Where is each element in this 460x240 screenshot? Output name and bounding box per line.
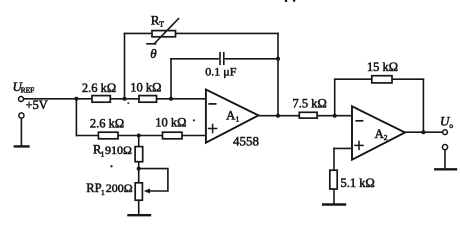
svg-text:0.1 μF: 0.1 μF xyxy=(205,64,236,78)
terminal: U_REF input xyxy=(19,97,24,102)
resistor 15 kOhm xyxy=(372,76,392,83)
thermistor RT diagonal stroke xyxy=(154,19,178,44)
stray speck near R1 label xyxy=(110,165,112,167)
capacitor 0.1 uF xyxy=(219,52,225,65)
svg-text:1: 1 xyxy=(101,188,105,197)
wire: R1/RP1 branch vertical xyxy=(138,136,140,216)
node: A2 output junction xyxy=(421,130,425,134)
wire: capacitor branch horizontal xyxy=(171,58,278,60)
node: R1/RP1 junction xyxy=(137,167,141,171)
wire row1: U_REF to A1 inverting input xyxy=(24,98,206,100)
op-amp A1 minus pin mark xyxy=(209,103,215,105)
potentiometer RP1 wiper arrowhead xyxy=(144,189,150,194)
svg-text:2.6 kΩ: 2.6 kΩ xyxy=(82,81,116,95)
wire: 5.1k branch vertical xyxy=(333,148,335,204)
svg-text:1: 1 xyxy=(101,150,105,159)
svg-text:2.6 kΩ: 2.6 kΩ xyxy=(90,117,124,131)
ground: under RP1 xyxy=(129,214,151,216)
terminal: U_o output xyxy=(443,130,448,135)
wire row2 horizontal xyxy=(76,135,206,137)
op-amp A1 xyxy=(206,90,259,143)
wire: A1 output to A2 input xyxy=(259,115,353,117)
label A2 xyxy=(375,126,388,142)
label R_T xyxy=(151,13,164,29)
wire: A2 output xyxy=(405,131,443,133)
resistor R1 910 Ohm (vertical) xyxy=(135,147,143,162)
node: A2 feedback junction xyxy=(333,114,337,118)
svg-text:15 kΩ: 15 kΩ xyxy=(367,60,398,74)
op-amp A2 plus pin mark xyxy=(355,141,363,149)
wire: riser to capacitor branch xyxy=(170,59,172,99)
svg-text:REF: REF xyxy=(21,85,35,94)
svg-text:1: 1 xyxy=(236,115,240,124)
svg-text:+5V: +5V xyxy=(26,98,48,112)
wire: thermistor branch top xyxy=(125,32,279,34)
wire: A2 plus input xyxy=(334,147,352,149)
svg-text:T: T xyxy=(159,20,164,29)
wire: right feedback vertical to A1 output xyxy=(277,33,279,115)
stray speck right of A1 input xyxy=(193,119,195,121)
wire: A2 feedback right vertical xyxy=(422,79,424,132)
stray mark: cropped glyph top edge right xyxy=(293,0,295,2)
resistor 10 kOhm (row 1) xyxy=(139,96,157,103)
label RP1 200 Ohm xyxy=(86,181,132,197)
wire: A2 feedback left riser xyxy=(334,79,336,116)
svg-text:2: 2 xyxy=(384,133,388,142)
resistor 2.6 kOhm (row 2) xyxy=(98,132,118,139)
svg-text:5.1 kΩ: 5.1 kΩ xyxy=(341,176,375,190)
resistor 2.6 kOhm (row 1) xyxy=(92,96,110,103)
node: R1 branch junction xyxy=(137,134,141,138)
node: capacitor tap junction xyxy=(169,97,173,101)
wire: riser to thermistor branch xyxy=(124,33,126,98)
op-amp A2 xyxy=(352,106,405,159)
wire: RP1 wiper loop xyxy=(139,169,168,191)
svg-text:10 kΩ: 10 kΩ xyxy=(155,115,186,129)
resistor 10 kOhm (row 2) xyxy=(163,132,183,139)
op-amp A1 plus pin mark xyxy=(209,125,217,133)
svg-text:200Ω: 200Ω xyxy=(106,181,133,195)
terminal: below U_o xyxy=(442,145,447,150)
ground: under output terminal xyxy=(435,168,456,170)
stray speck below junction xyxy=(127,102,129,104)
node: capacitor / thermistor feedback junction xyxy=(276,57,280,61)
svg-text:7.5 kΩ: 7.5 kΩ xyxy=(293,97,327,111)
label A1 xyxy=(226,108,240,124)
thermistor RT foot xyxy=(147,43,156,45)
label U_o xyxy=(440,114,453,131)
svg-text:910Ω: 910Ω xyxy=(105,143,132,157)
svg-text:o: o xyxy=(449,121,453,130)
wire: output lower terminal to ground xyxy=(444,150,446,170)
wire: A2 feedback top xyxy=(335,78,424,80)
potentiometer RP1 200 Ohm body xyxy=(135,183,142,200)
node: thermistor tap junction xyxy=(123,97,127,101)
resistor 5.1 kOhm (vertical) xyxy=(330,170,337,189)
thermistor RT body xyxy=(152,31,176,37)
resistor 7.5 kOhm xyxy=(299,112,317,118)
stray mark: cropped glyph top edge left xyxy=(285,0,287,2)
ground: under 5.1k resistor xyxy=(323,203,345,205)
wire row2: junction to A1 non-inverting input xyxy=(75,99,77,136)
wire: U_REF lower terminal to ground xyxy=(20,118,22,147)
node: A1 output junction xyxy=(276,114,280,118)
node: input split junction xyxy=(74,97,78,101)
label R1 910 Ohm xyxy=(93,143,132,159)
svg-text:θ: θ xyxy=(150,46,157,61)
svg-text:4558: 4558 xyxy=(233,134,259,149)
svg-text:10 kΩ: 10 kΩ xyxy=(130,81,161,95)
op-amp A2 minus pin mark xyxy=(356,120,362,122)
svg-text:RP: RP xyxy=(86,181,101,195)
ground: under U_REF terminal xyxy=(15,145,29,147)
label U_REF xyxy=(13,79,35,94)
svg-text:A: A xyxy=(226,108,236,123)
terminal: below U_REF xyxy=(19,113,24,118)
